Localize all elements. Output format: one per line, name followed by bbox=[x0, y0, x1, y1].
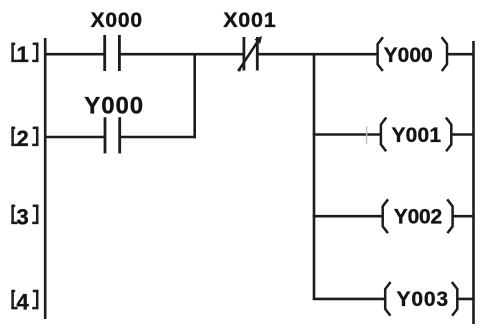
svg-text:3: 3 bbox=[16, 205, 28, 230]
svg-text:X000: X000 bbox=[91, 9, 142, 32]
svg-text:1: 1 bbox=[16, 42, 28, 67]
svg-text:Y002: Y002 bbox=[394, 206, 442, 229]
svg-text:Y003: Y003 bbox=[397, 288, 449, 311]
svg-text:2: 2 bbox=[16, 126, 28, 151]
svg-text:Y000: Y000 bbox=[384, 44, 433, 67]
svg-text:Y000: Y000 bbox=[84, 93, 143, 120]
svg-text:4: 4 bbox=[16, 290, 29, 315]
svg-text:X001: X001 bbox=[223, 8, 276, 32]
svg-text:Y001: Y001 bbox=[392, 124, 442, 147]
